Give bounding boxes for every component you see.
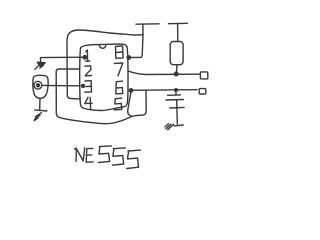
pin label 4 [85,97,92,109]
wire pin 1 to ground [41,56,87,63]
pin label 5 [114,98,122,110]
pin label 8 [116,46,124,58]
wire pin 8 to VCC rail [127,35,143,59]
terminal TP2 (lower square pad) [199,89,206,94]
connector J1 (input jack, outer shell) [33,75,48,98]
capacitor C1 bottom plate [166,99,184,102]
wire connector to pin 3 [42,84,85,87]
wire pin 6 rail to terminal [128,89,197,92]
junction pin8-IC [127,56,130,59]
IC U1 NE555 body (DIP-8 outline with notch) [80,44,128,110]
wire pin 2 loop (pin2 left, down, along bottom, up to pin6 rail) [56,69,146,124]
IC U1 pin-1 notch mark (semicircle on top edge) [99,45,105,48]
pin label 6 [116,81,123,94]
wire pin 7 to terminal (discharge rail) [128,71,199,76]
pin label 3 [85,81,92,93]
power VCC2 (supply T-bar above resistor R1) [169,23,188,41]
label NE555 letter N [74,148,84,162]
wire connector sleeve to ground [39,98,41,109]
ground GND1 (top-left, at pin 1) [35,62,45,69]
ground GND2 (below connector) [34,110,47,121]
junction C1 stub on pin6 rail [175,89,178,92]
wire pin 5/6 drop riser (hangs from pin 6 rail into bottom loop) [128,89,133,116]
ground GND3 (below capacitor) [165,107,184,129]
wire R1 bottom lead [175,65,178,74]
capacitor C1 (top lead) [175,90,177,95]
pin label 2 [85,66,92,76]
connector J1 center pin dot [37,84,40,87]
label NE555 digit 5 (second) [112,148,125,165]
junction riser-pin6 rail [129,89,132,92]
junction pin3-IC [82,84,85,87]
wire VCC top rail (from VCC1 junction leftwards, down left side to pin 4) [67,30,143,99]
label NE555 letter E [86,148,93,162]
junction pin1-IC [83,56,86,59]
capacitor C1 top plate [168,94,181,96]
pin label 7 [114,63,122,76]
label NE555 digit 5 (first) [98,146,111,163]
power VCC1 (left supply T-bar) [136,24,159,35]
junction R1-pin7 rail [174,72,178,76]
pin label 1 [86,50,90,61]
wire C1 to ground [176,100,179,124]
terminal TP1 (upper square pad) [200,72,207,79]
label NE555 digit 5 (third) [127,150,141,168]
resistor R1 (body) [170,42,183,65]
connector J1 inner ring [34,81,42,89]
